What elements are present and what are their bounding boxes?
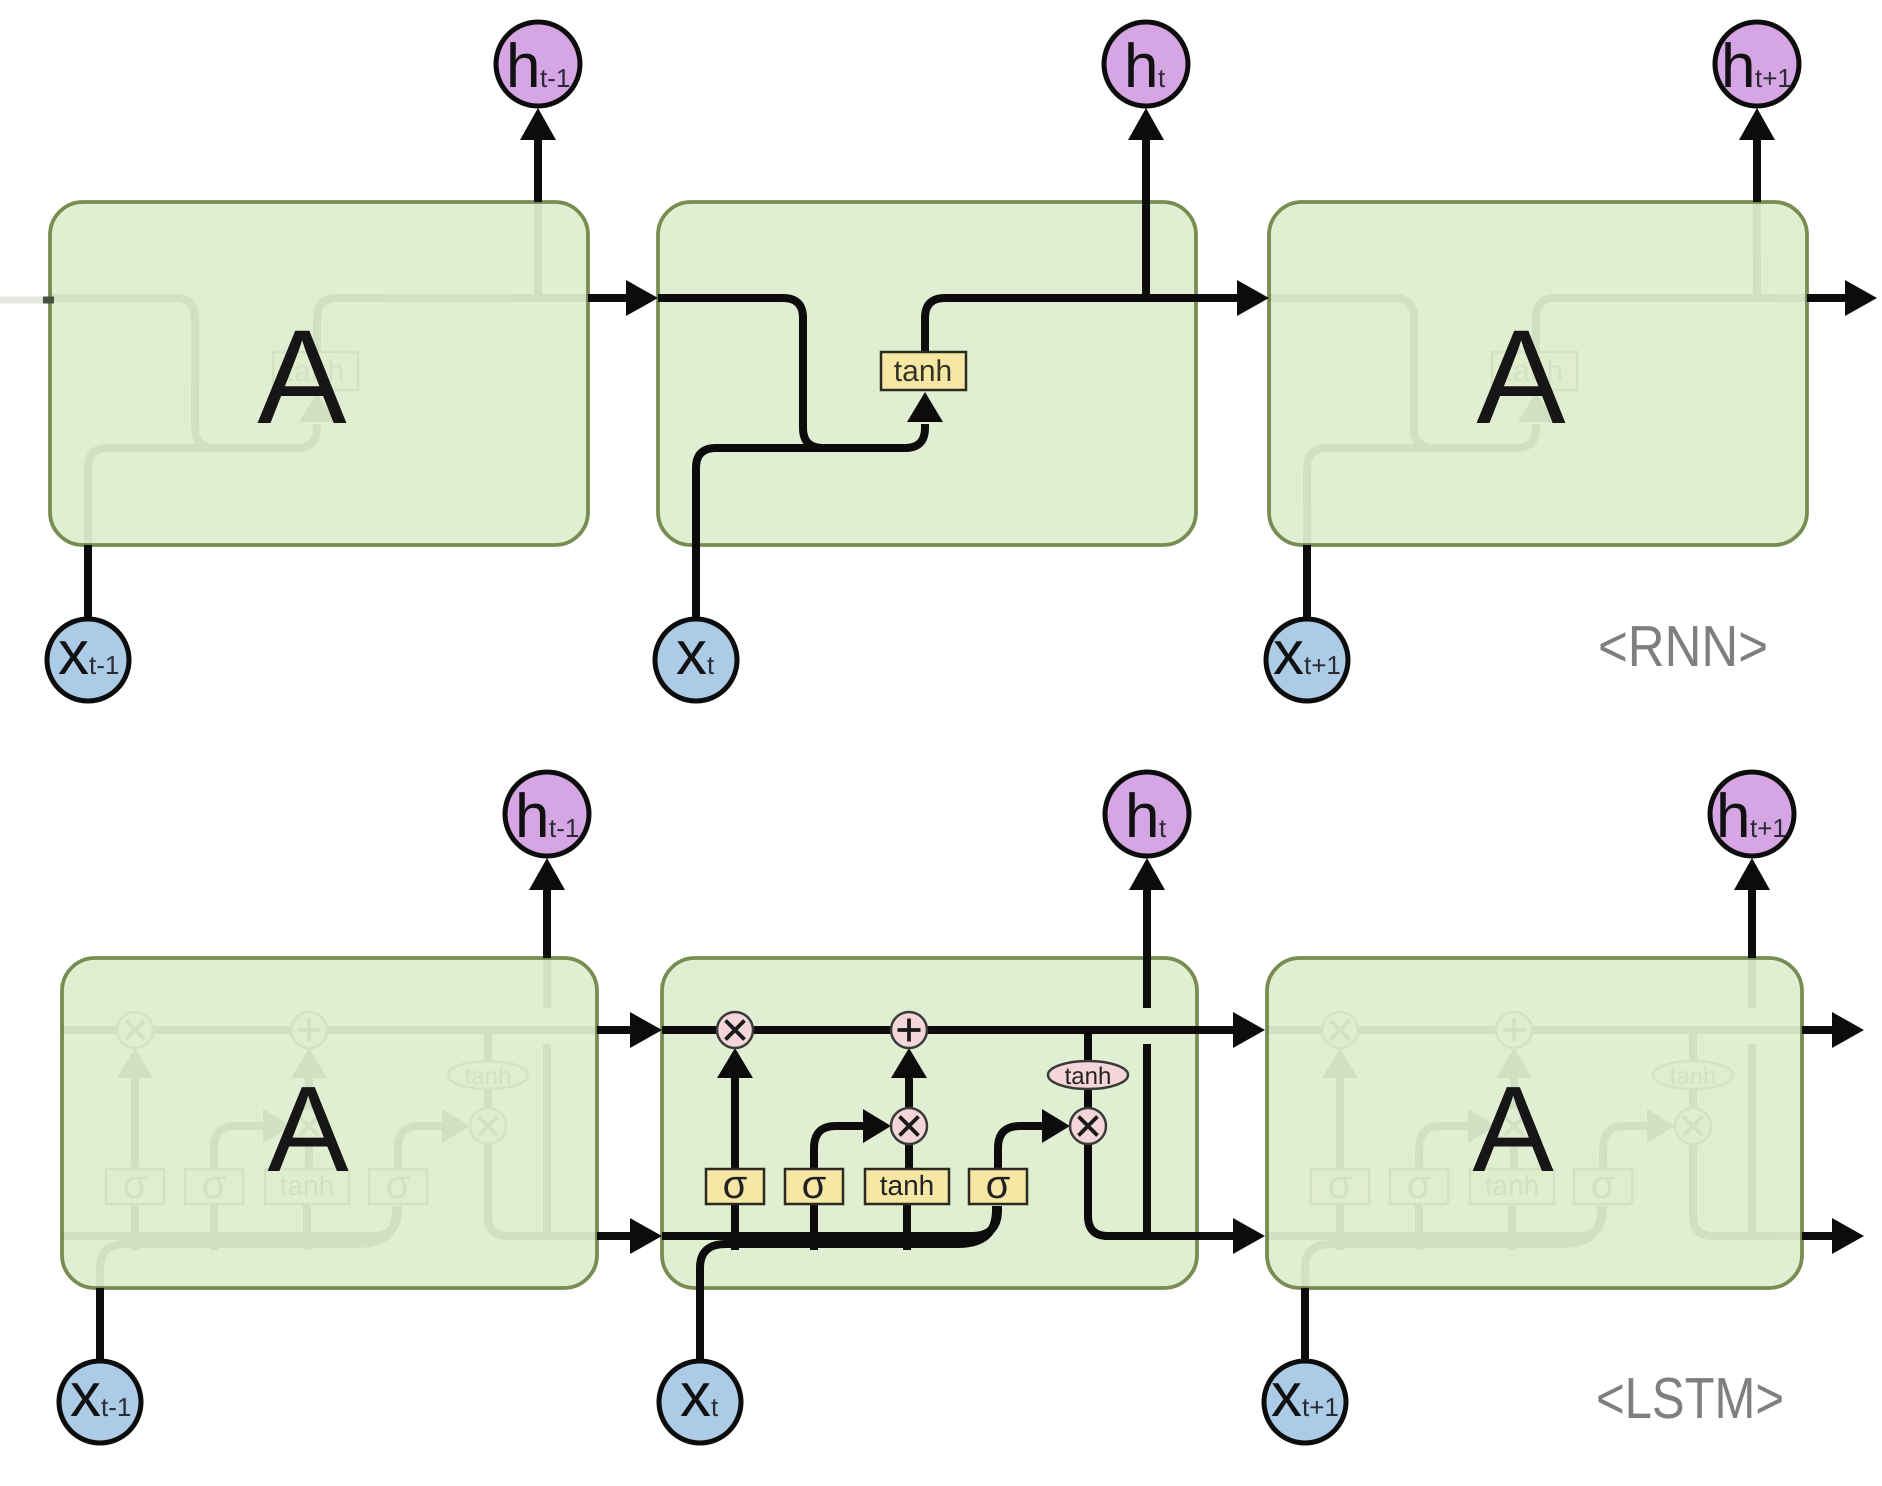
- svg-text:A: A: [1472, 1061, 1554, 1197]
- LSTM cell A(t-1) faded internals: [62, 958, 597, 1288]
- node h(t-1) top: [496, 22, 580, 106]
- wire: LSTM h output right: [1802, 1218, 1864, 1254]
- svg-text:x: x: [676, 619, 707, 688]
- wire: faint chain remnant at left edge: [0, 297, 46, 304]
- wire: RNN A(t) to A(t+1): [1196, 280, 1269, 316]
- svg-text:x: x: [1273, 619, 1304, 688]
- node h(t+1) top: [1715, 22, 1799, 106]
- wire: LSTM h line A(t-1) to A(t): [597, 1218, 662, 1254]
- svg-text:A: A: [267, 1061, 349, 1197]
- svg-text:t-1: t-1: [540, 63, 570, 93]
- wire: LSTM C line A(t-1) to A(t): [597, 1012, 662, 1048]
- svg-text:x: x: [70, 1361, 101, 1430]
- LSTM cell A(t-1) io stubs: [100, 858, 565, 1363]
- LSTM cell A(t) body: [662, 958, 1197, 1288]
- RNN cell A(t) io stubs: [696, 108, 1164, 622]
- node h(t+1) bottom: [1710, 772, 1794, 856]
- svg-text:t+1: t+1: [1302, 1392, 1339, 1422]
- svg-text:t-1: t-1: [89, 650, 119, 680]
- node x(t+1) bottom row: [1264, 1361, 1346, 1443]
- node x(t+1) bottom: [1266, 619, 1348, 701]
- LSTM cell A(t) internals: [662, 958, 1197, 1288]
- svg-text:t-1: t-1: [549, 813, 579, 843]
- svg-text:h: h: [1125, 782, 1159, 851]
- svg-text:A: A: [257, 303, 347, 452]
- node x(t) bottom: [655, 619, 737, 701]
- RNN cell A(t-1) io stubs: [88, 108, 556, 622]
- svg-text:h: h: [1716, 782, 1750, 851]
- wire: RNN A(t+1) output: [1807, 280, 1877, 316]
- svg-text:t: t: [1158, 63, 1166, 93]
- svg-text:t+1: t+1: [1304, 650, 1341, 680]
- svg-text:x: x: [1271, 1361, 1302, 1430]
- wire: RNN A(t-1) to A(t): [588, 280, 658, 316]
- node h(t) top: [1104, 22, 1188, 106]
- svg-text:x: x: [680, 1361, 711, 1430]
- node h(t-1) bottom: [505, 772, 589, 856]
- svg-text:<LSTM>: <LSTM>: [1596, 1366, 1784, 1431]
- RNN cell A(t+1) io stubs: [1307, 108, 1775, 622]
- wire: LSTM C line A(t) to A(t+1): [1197, 1012, 1265, 1048]
- node h(t) bottom: [1105, 772, 1189, 856]
- svg-text:h: h: [515, 782, 549, 851]
- RNN cell A(t) body: [658, 202, 1196, 545]
- RNN cell A(t) internals: [658, 202, 1196, 545]
- svg-text:t: t: [707, 650, 715, 680]
- LSTM cell A(t+1) body: [1267, 958, 1802, 1288]
- RNN cell A(t-1) body: [50, 202, 588, 545]
- wire: LSTM h line A(t) to A(t+1): [1197, 1218, 1265, 1254]
- RNN cell A(t+1) body: [1269, 202, 1807, 545]
- wire: LSTM C output right: [1802, 1012, 1864, 1048]
- svg-text:A: A: [1476, 303, 1566, 452]
- LSTM cell A(t+1) faded internals: [1267, 958, 1802, 1288]
- node x(t-1) bottom: [47, 619, 129, 701]
- svg-text:h: h: [1124, 32, 1158, 101]
- svg-text:x: x: [58, 619, 89, 688]
- svg-text:h: h: [506, 32, 540, 101]
- LSTM cell A(t-1) body: [62, 958, 597, 1288]
- svg-text:h: h: [1721, 32, 1755, 101]
- svg-text:t: t: [711, 1392, 719, 1422]
- LSTM cell A(t) io stubs: [700, 858, 1165, 1363]
- node x(t-1) bottom row: [59, 1361, 141, 1443]
- node x(t) bottom row: [659, 1361, 741, 1443]
- svg-text:t+1: t+1: [1750, 813, 1787, 843]
- RNN cell A(t-1) faded internals: [50, 202, 588, 545]
- LSTM cell A(t+1) io stubs: [1305, 858, 1770, 1363]
- svg-text:t: t: [1159, 813, 1167, 843]
- svg-text:<RNN>: <RNN>: [1598, 614, 1768, 679]
- svg-text:t+1: t+1: [1755, 63, 1792, 93]
- svg-text:t-1: t-1: [101, 1392, 131, 1422]
- RNN cell A(t+1) faded internals: [1269, 202, 1807, 545]
